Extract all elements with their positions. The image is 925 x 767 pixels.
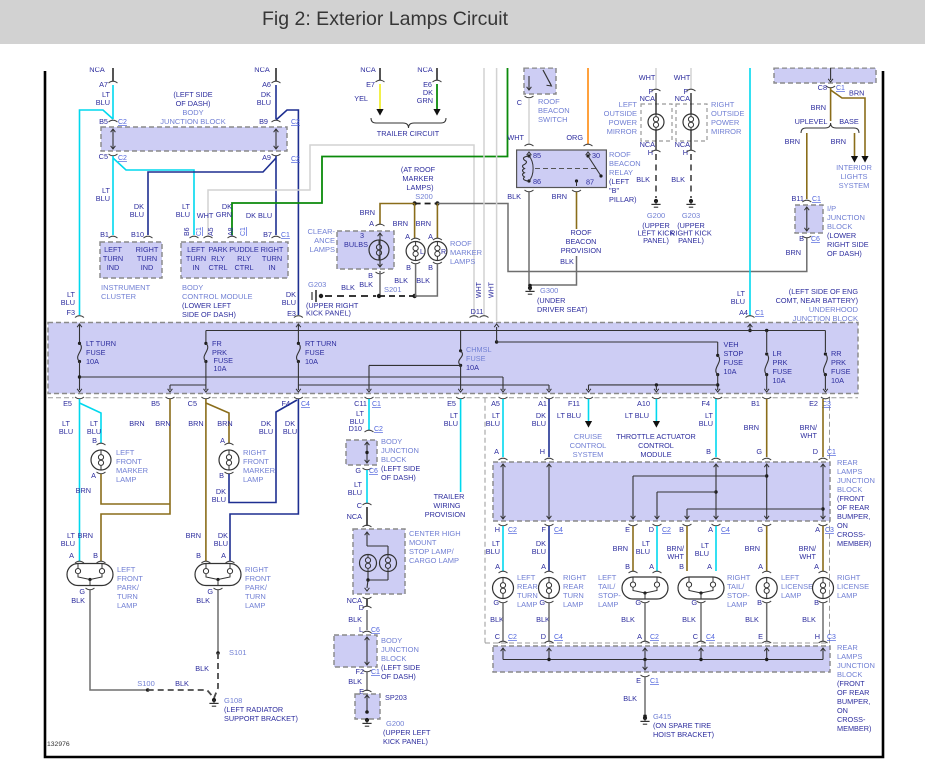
svg-text:STOP-: STOP-: [727, 591, 750, 600]
fuse FR PRK 10A: [204, 342, 207, 345]
left outside power mirror: [641, 104, 672, 141]
svg-text:BLU: BLU: [61, 298, 75, 307]
svg-text:G: G: [493, 598, 499, 607]
svg-text:BLK: BLK: [348, 677, 362, 686]
svg-text:JUNCTION: JUNCTION: [837, 661, 875, 670]
svg-text:YEL: YEL: [354, 94, 368, 103]
clearance lamps: [337, 231, 394, 269]
svg-text:FUSE: FUSE: [305, 348, 325, 357]
svg-text:C4: C4: [554, 634, 563, 641]
svg-text:(LEFT SIDE: (LEFT SIDE: [381, 464, 420, 473]
svg-text:D: D: [649, 525, 654, 534]
svg-text:C1: C1: [372, 401, 381, 408]
svg-text:C1: C1: [196, 227, 203, 236]
svg-text:BRN: BRN: [129, 419, 144, 428]
svg-text:FRONT: FRONT: [116, 457, 142, 466]
splice SP203: [363, 690, 372, 692]
svg-text:JUNCTION BLOCK: JUNCTION BLOCK: [793, 314, 858, 323]
svg-text:RLY: RLY: [211, 254, 225, 263]
svg-text:(LEFT RADIATOR: (LEFT RADIATOR: [224, 705, 283, 714]
body junction block D10: [365, 430, 374, 432]
svg-text:G: G: [355, 466, 361, 475]
svg-text:B: B: [93, 551, 98, 560]
svg-text:BLK: BLK: [490, 615, 504, 624]
svg-text:B: B: [196, 551, 201, 560]
svg-text:C2: C2: [291, 156, 300, 163]
svg-text:PILLAR): PILLAR): [609, 195, 637, 204]
svg-text:BLK: BLK: [71, 596, 85, 605]
svg-text:(FRONT: (FRONT: [837, 494, 865, 503]
svg-text:C: C: [517, 98, 522, 107]
svg-text:SYSTEM: SYSTEM: [839, 181, 870, 190]
svg-text:(UPPER LEFT: (UPPER LEFT: [383, 728, 431, 737]
internal RT TURN output: [297, 362, 299, 391]
svg-text:LEFT: LEFT: [104, 245, 122, 254]
rear junction internal B to A and D: [715, 464, 717, 519]
svg-text:BLU: BLU: [532, 419, 546, 428]
svg-text:BRN: BRN: [155, 419, 170, 428]
svg-text:BEACON: BEACON: [566, 237, 597, 246]
svg-text:OF DASH): OF DASH): [381, 473, 416, 482]
svg-text:ON: ON: [837, 706, 848, 715]
svg-text:BRN: BRN: [188, 419, 203, 428]
svg-text:BLU: BLU: [96, 194, 110, 203]
svg-text:85: 85: [533, 151, 541, 160]
svg-text:H: H: [683, 148, 688, 157]
left tail/stop lamp: [629, 571, 638, 573]
svg-text:A: A: [494, 447, 499, 456]
wire WHT vertical 1: [483, 68, 485, 316]
svg-text:LR: LR: [773, 349, 782, 358]
svg-text:BLK: BLK: [671, 175, 685, 184]
svg-text:C2: C2: [508, 527, 517, 534]
svg-text:BLU: BLU: [731, 297, 745, 306]
svg-text:BLU: BLU: [130, 210, 144, 219]
svg-text:(AT ROOF: (AT ROOF: [401, 165, 436, 174]
node B clearance lamps: [376, 272, 385, 274]
node A4 entry: [746, 316, 755, 318]
svg-text:S200: S200: [415, 192, 433, 201]
svg-text:VEH: VEH: [724, 340, 739, 349]
node E C1 ground exit: [641, 675, 650, 677]
svg-text:IN: IN: [268, 263, 275, 272]
ground G300: [528, 284, 532, 288]
svg-text:G300: G300: [540, 286, 558, 295]
svg-text:LAMP: LAMP: [727, 600, 747, 609]
svg-text:E: E: [636, 676, 641, 685]
svg-text:H: H: [540, 447, 545, 456]
svg-text:LAMP: LAMP: [243, 475, 263, 484]
svg-text:G: G: [691, 598, 697, 607]
wire WHT vertical 2: [496, 68, 498, 321]
svg-text:10A: 10A: [724, 367, 737, 376]
svg-text:C: C: [357, 501, 362, 510]
svg-text:(ON SPARE TIRE: (ON SPARE TIRE: [653, 721, 711, 730]
svg-text:BLOCK: BLOCK: [837, 670, 862, 679]
svg-text:C: C: [693, 632, 698, 641]
svg-text:RIGHT: RIGHT: [136, 245, 159, 254]
svg-text:F4: F4: [701, 399, 710, 408]
svg-text:REAR: REAR: [837, 458, 858, 467]
svg-text:G: G: [756, 447, 762, 456]
svg-text:BLK: BLK: [621, 615, 635, 624]
svg-text:BLK: BLK: [341, 283, 355, 292]
node G C6: [363, 468, 372, 470]
svg-text:A: A: [221, 551, 226, 560]
svg-text:BLU: BLU: [695, 549, 709, 558]
svg-text:BLU: BLU: [176, 210, 190, 219]
svg-text:C4: C4: [706, 634, 715, 641]
svg-text:KICK PANEL): KICK PANEL): [383, 737, 428, 746]
svg-text:MEMBER): MEMBER): [837, 724, 871, 733]
svg-text:A7: A7: [99, 80, 108, 89]
svg-text:BLK: BLK: [196, 596, 210, 605]
svg-text:B: B: [219, 471, 224, 480]
wire WHT switch to relay: [528, 98, 530, 144]
svg-text:C: C: [495, 632, 500, 641]
svg-text:C2: C2: [118, 119, 127, 126]
svg-text:ANCE: ANCE: [314, 236, 335, 245]
svg-text:D: D: [813, 447, 818, 456]
svg-text:BLOCK: BLOCK: [381, 455, 406, 464]
right tail/stop lamp: [678, 577, 724, 599]
internal LT TURN output: [79, 362, 81, 391]
svg-text:D11: D11: [471, 307, 484, 316]
svg-text:LEFT: LEFT: [187, 245, 205, 254]
svg-text:FUSE: FUSE: [86, 348, 106, 357]
svg-text:LICENSE: LICENSE: [781, 582, 813, 591]
svg-text:CROSS-: CROSS-: [837, 715, 866, 724]
svg-text:LAMPS: LAMPS: [837, 652, 862, 661]
svg-text:B9: B9: [259, 117, 268, 126]
svg-text:LEFT: LEFT: [619, 100, 638, 109]
svg-text:B: B: [625, 562, 630, 571]
svg-text:BEACON: BEACON: [538, 106, 570, 115]
svg-text:E2: E2: [809, 399, 818, 408]
svg-text:MARKER: MARKER: [116, 466, 149, 475]
wire LT BLU branch to left front marker B: [80, 403, 102, 443]
wire BRN G to left license lamp: [766, 526, 768, 571]
svg-text:B: B: [706, 447, 711, 456]
wire DK BLU A1 to rear junction F: [548, 399, 550, 457]
svg-text:WIRING: WIRING: [433, 501, 460, 510]
svg-text:RT TURN: RT TURN: [305, 339, 337, 348]
svg-text:BLK: BLK: [175, 679, 189, 688]
svg-text:PANEL): PANEL): [678, 236, 704, 245]
svg-text:G203: G203: [308, 280, 326, 289]
svg-text:B6: B6: [184, 227, 191, 236]
svg-text:132976: 132976: [47, 741, 70, 748]
wire BLK left roof marker to S201: [411, 262, 420, 264]
svg-text:TAIL/: TAIL/: [598, 582, 616, 591]
svg-text:BLK: BLK: [416, 276, 430, 285]
underhood bottom connectors: [75, 397, 84, 399]
svg-text:C1: C1: [812, 196, 821, 203]
svg-text:D: D: [541, 632, 546, 641]
wire BRN S200 to clearance lamps: [380, 204, 415, 225]
svg-text:BRN: BRN: [744, 423, 759, 432]
svg-text:F: F: [542, 525, 547, 534]
svg-text:SWITCH: SWITCH: [538, 115, 568, 124]
svg-text:GRN: GRN: [216, 210, 232, 219]
svg-text:FUSE: FUSE: [724, 358, 744, 367]
svg-text:TURN: TURN: [262, 254, 282, 263]
svg-text:SIDE OF DASH): SIDE OF DASH): [182, 310, 236, 319]
svg-text:RIGHT: RIGHT: [837, 573, 861, 582]
svg-text:IND: IND: [107, 263, 120, 272]
node F left mirror: [652, 89, 661, 91]
svg-text:LAMPS: LAMPS: [450, 257, 475, 266]
svg-text:LT BLU: LT BLU: [557, 411, 581, 420]
svg-text:BRN: BRN: [416, 219, 431, 228]
svg-text:A9: A9: [262, 153, 271, 162]
svg-text:LAMP: LAMP: [245, 601, 265, 610]
svg-text:BRN: BRN: [785, 137, 800, 146]
internal LR PRK output: [766, 375, 768, 390]
svg-text:10A: 10A: [214, 364, 227, 373]
fuse VEH STOP 10A: [716, 354, 719, 357]
svg-text:BLU: BLU: [444, 419, 458, 428]
wire BRN C8 to interior lights base: [831, 90, 865, 156]
svg-text:BRN: BRN: [217, 419, 232, 428]
svg-text:B1: B1: [751, 399, 760, 408]
svg-text:F4: F4: [281, 399, 290, 408]
right front marker lamp: [225, 443, 234, 445]
wire LT BLU C5 to B1: [112, 156, 114, 235]
svg-text:OF DASH): OF DASH): [176, 99, 211, 108]
wire LT BLU A to right tail lamp A: [715, 526, 717, 571]
svg-text:LAMP: LAMP: [117, 601, 137, 610]
svg-text:C2: C2: [650, 634, 659, 641]
svg-text:BRN: BRN: [360, 208, 375, 217]
svg-text:FRONT: FRONT: [117, 574, 143, 583]
svg-text:B: B: [814, 598, 819, 607]
svg-text:BUMPER,: BUMPER,: [837, 697, 870, 706]
internal VEH STOP output: [717, 375, 719, 390]
fuse LR PRK 10A: [765, 352, 768, 355]
svg-text:A: A: [91, 471, 96, 480]
svg-text:A: A: [220, 436, 225, 445]
svg-text:C4: C4: [301, 401, 310, 408]
svg-text:BASE: BASE: [839, 117, 859, 126]
svg-text:PRK: PRK: [773, 358, 788, 367]
svg-text:BLK: BLK: [394, 276, 408, 285]
svg-text:OF DASH): OF DASH): [827, 249, 862, 258]
svg-text:TURN: TURN: [103, 254, 123, 263]
svg-text:A: A: [649, 562, 654, 571]
svg-text:G415: G415: [653, 712, 671, 721]
svg-text:A5: A5: [491, 399, 500, 408]
svg-text:BRN: BRN: [552, 192, 567, 201]
svg-text:BRN: BRN: [849, 89, 864, 98]
svg-text:A: A: [758, 562, 763, 571]
svg-text:BODY: BODY: [182, 283, 203, 292]
svg-text:BLK: BLK: [682, 615, 696, 624]
svg-text:G200: G200: [386, 719, 404, 728]
svg-text:BLU: BLU: [214, 539, 228, 548]
svg-text:BODY: BODY: [381, 636, 402, 645]
wire NCA chmsl to D: [366, 599, 368, 606]
svg-text:B7: B7: [263, 230, 272, 239]
svg-text:THROTTLE ACTUATOR: THROTTLE ACTUATOR: [616, 432, 696, 441]
node E3 entry: [294, 316, 303, 318]
harness connector interface line: [48, 397, 74, 399]
svg-text:ROOF: ROOF: [450, 239, 472, 248]
svg-text:JUNCTION BLOCK: JUNCTION BLOCK: [160, 117, 225, 126]
svg-text:INSTRUMENT: INSTRUMENT: [101, 283, 151, 292]
wire BLK right front park lamp to S101: [217, 590, 219, 653]
svg-text:A: A: [69, 551, 74, 560]
svg-text:FUSE: FUSE: [466, 354, 486, 363]
svg-text:BRN: BRN: [745, 544, 760, 553]
svg-text:TURN: TURN: [245, 592, 266, 601]
left roof marker lamp: [411, 238, 420, 240]
wire LT BLU branch B5 to F3: [80, 110, 114, 315]
svg-text:CARGO LAMP: CARGO LAMP: [409, 556, 459, 565]
body control module: [181, 242, 288, 278]
node F3 entry: [75, 316, 84, 318]
node F2 C1: [363, 670, 372, 672]
svg-text:C4: C4: [554, 527, 563, 534]
svg-text:FUSE: FUSE: [773, 367, 793, 376]
svg-text:(LEFT SIDE: (LEFT SIDE: [173, 90, 212, 99]
svg-text:(LOWER: (LOWER: [827, 231, 856, 240]
wire BRN E to left tail lamp B: [632, 526, 634, 571]
svg-text:A8: A8: [228, 227, 235, 236]
svg-text:TRAILER CIRCUIT: TRAILER CIRCUIT: [377, 129, 440, 138]
svg-text:A4: A4: [739, 308, 748, 317]
svg-text:INTERIOR: INTERIOR: [836, 163, 872, 172]
svg-text:BLU: BLU: [87, 427, 101, 436]
svg-text:ORG: ORG: [566, 133, 583, 142]
svg-text:BRN: BRN: [831, 137, 846, 146]
svg-text:BRN: BRN: [76, 486, 91, 495]
rear lamps junction block lower: [499, 641, 508, 643]
rear junction bottom connectors: [499, 524, 508, 526]
svg-text:WHT: WHT: [799, 552, 816, 561]
svg-text:BLK: BLK: [359, 280, 373, 289]
ground G200 kick panel: [365, 718, 369, 722]
svg-text:OF REAR: OF REAR: [837, 503, 869, 512]
I/P junction block: [795, 205, 823, 233]
svg-text:A: A: [369, 219, 374, 228]
svg-text:A: A: [707, 562, 712, 571]
svg-text:R: R: [441, 249, 446, 256]
wire BRN B5 to left front park lamp B: [101, 399, 170, 561]
svg-text:A: A: [428, 232, 433, 241]
svg-text:WHT: WHT: [639, 73, 656, 82]
svg-text:C1: C1: [240, 227, 247, 236]
svg-text:MIRROR: MIRROR: [607, 127, 638, 136]
svg-text:LAMPS: LAMPS: [837, 467, 862, 476]
right roof marker lamp: [433, 238, 442, 240]
wire LT BLU D to left tail lamp A: [656, 526, 658, 571]
svg-text:BLK: BLK: [195, 664, 209, 673]
svg-text:NCA: NCA: [347, 512, 363, 521]
svg-text:BEACON: BEACON: [609, 159, 641, 168]
svg-text:RIGHT: RIGHT: [243, 448, 267, 457]
svg-text:G: G: [757, 525, 763, 534]
svg-text:CTRL: CTRL: [234, 263, 253, 272]
svg-text:LAMPS: LAMPS: [310, 245, 335, 254]
wire LT BLU to A4 underhood: [749, 68, 751, 316]
svg-text:BLOCK: BLOCK: [827, 222, 852, 231]
svg-text:(UNDER: (UNDER: [537, 296, 565, 305]
svg-text:CENTER HIGH: CENTER HIGH: [409, 529, 461, 538]
svg-text:PARK/: PARK/: [245, 583, 268, 592]
svg-text:WHT: WHT: [674, 73, 691, 82]
svg-text:FR: FR: [212, 339, 222, 348]
internal FR PRK output: [205, 362, 207, 391]
svg-text:Fig 2: Exterior Lamps Circuit: Fig 2: Exterior Lamps Circuit: [262, 8, 509, 30]
svg-text:DRIVER SEAT): DRIVER SEAT): [537, 305, 588, 314]
svg-text:POWER: POWER: [711, 118, 740, 127]
svg-text:B: B: [368, 271, 373, 280]
body junction block 2: [363, 631, 372, 633]
svg-text:BRN: BRN: [786, 248, 801, 257]
svg-text:C5: C5: [99, 152, 108, 161]
svg-text:WHT: WHT: [197, 211, 214, 220]
roof beacon relay: [525, 144, 534, 146]
svg-text:(LEFT SIDE: (LEFT SIDE: [381, 663, 420, 672]
header bar: [0, 0, 925, 44]
wire BRN C5 to right front park lamp B: [205, 399, 207, 561]
svg-text:BRN: BRN: [393, 219, 408, 228]
svg-text:UPLEVEL: UPLEVEL: [795, 117, 828, 126]
rear harness boundary: [484, 398, 486, 643]
svg-text:C1: C1: [281, 232, 290, 239]
wire ORG to relay 30: [587, 68, 589, 144]
svg-text:BLU: BLU: [282, 298, 296, 307]
svg-text:B1: B1: [100, 230, 109, 239]
left front marker lamp: [97, 443, 106, 445]
svg-text:LT TURN: LT TURN: [86, 339, 116, 348]
svg-text:SP203: SP203: [385, 693, 407, 702]
wire BRN/WHT B to right tail lamp B: [686, 526, 688, 571]
svg-text:CHMSL: CHMSL: [466, 345, 492, 354]
svg-text:REAR: REAR: [837, 643, 858, 652]
svg-text:CLEAR-: CLEAR-: [307, 227, 335, 236]
relay linkage dashed: [535, 168, 596, 170]
svg-text:BLK: BLK: [348, 615, 362, 624]
svg-text:BODY: BODY: [381, 437, 402, 446]
svg-text:10A: 10A: [773, 376, 786, 385]
svg-text:BLU: BLU: [283, 427, 297, 436]
distribution brace: [801, 123, 859, 133]
svg-text:HOIST BRACKET): HOIST BRACKET): [653, 730, 714, 739]
svg-text:G: G: [207, 587, 213, 596]
svg-text:10A: 10A: [831, 376, 844, 385]
svg-text:TRAILER: TRAILER: [434, 492, 465, 501]
svg-text:LAMP: LAMP: [837, 591, 857, 600]
svg-text:TURN: TURN: [517, 591, 538, 600]
svg-text:BLK: BLK: [802, 615, 816, 624]
svg-text:B: B: [679, 525, 684, 534]
instrument cluster: [100, 242, 162, 278]
svg-text:BRN: BRN: [78, 531, 93, 540]
svg-text:PARK/: PARK/: [117, 583, 140, 592]
svg-text:WHT: WHT: [507, 133, 524, 142]
svg-text:MEMBER): MEMBER): [837, 539, 871, 548]
svg-text:TURN: TURN: [563, 591, 584, 600]
svg-text:BLK: BLK: [636, 175, 650, 184]
svg-text:SUPPORT BRACKET): SUPPORT BRACKET): [224, 714, 298, 723]
ground G108: [212, 698, 216, 702]
svg-text:RIGHT SIDE: RIGHT SIDE: [827, 240, 869, 249]
svg-text:NCA: NCA: [640, 94, 656, 103]
svg-text:C11: C11: [354, 399, 367, 408]
wire BLK left front park lamp to S100: [90, 590, 148, 690]
